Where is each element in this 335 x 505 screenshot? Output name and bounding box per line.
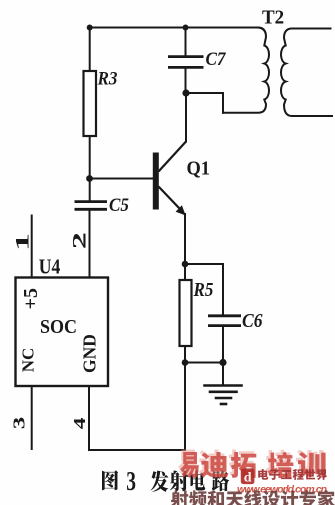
wire U4 pin1 stub xyxy=(31,216,33,278)
node R5 bottom junction xyxy=(182,359,189,366)
wire C7 bottom lead to collector node xyxy=(185,68,187,93)
svg-text:3: 3 xyxy=(126,467,136,497)
node emitter/R5 junction xyxy=(182,261,189,268)
svg-text:C7: C7 xyxy=(206,48,227,69)
wire Q1 emitter vertical down xyxy=(184,214,186,450)
watermark bottom char 线 xyxy=(244,490,261,505)
svg-text:1: 1 xyxy=(12,233,33,251)
wire Q1 collector vertical xyxy=(185,93,187,142)
wire ground lead xyxy=(222,363,224,385)
inductor T2 secondary winding xyxy=(281,29,332,117)
watermark bottom char 家 xyxy=(318,490,335,505)
inductor T2 primary winding xyxy=(223,28,269,113)
svg-text:+5: +5 xyxy=(20,288,42,309)
resistor R5 body xyxy=(180,280,192,346)
wire top rail from R3 top to T2 primary xyxy=(90,27,258,29)
watermark small char 子 xyxy=(269,469,280,479)
wire R5 to C6 top link xyxy=(185,264,223,315)
svg-text:SOC: SOC xyxy=(40,316,77,338)
wire C7 top lead xyxy=(185,28,187,57)
caption char 图 xyxy=(102,470,118,490)
svg-text:NC: NC xyxy=(19,348,38,373)
watermark char 拓 xyxy=(231,452,256,478)
watermark small char 电 xyxy=(258,469,268,480)
svg-text:C5: C5 xyxy=(109,194,129,215)
watermark bottom char 天 xyxy=(226,491,244,505)
wire C5 bottom lead to U4 pin2 xyxy=(89,210,91,278)
watermark char 培 xyxy=(268,452,294,478)
watermark bottom char 和 xyxy=(207,490,224,505)
watermark char 训 xyxy=(298,452,326,478)
capacitor C5 plates xyxy=(75,202,108,210)
watermark small char 程 xyxy=(293,469,304,480)
wire collector node jog to T2 primary bottom xyxy=(186,93,223,113)
node top C7 junction xyxy=(183,25,189,31)
node base/C5 junction xyxy=(86,175,93,182)
watermark char 易 xyxy=(180,452,199,478)
IC U4 body xyxy=(16,278,109,387)
svg-text:T2: T2 xyxy=(262,7,284,29)
watermark bottom char 计 xyxy=(281,490,298,505)
wire R3 top lead xyxy=(89,28,91,72)
ground symbol xyxy=(205,386,242,405)
watermark char 迪 xyxy=(201,452,229,478)
wire C6 bottom lead xyxy=(222,326,224,363)
node top-left junction xyxy=(87,25,93,31)
watermark ghost offset copy xyxy=(178,449,324,475)
watermark bottom char 设 xyxy=(263,491,280,505)
node C6/ground junction xyxy=(219,359,226,366)
svg-text:4: 4 xyxy=(70,417,89,429)
caption char 射 xyxy=(170,471,189,492)
svg-text:C6: C6 xyxy=(242,310,263,332)
svg-text:R5: R5 xyxy=(193,279,214,302)
watermark small char 世 xyxy=(305,469,316,479)
wire bottom return pin4 to emitter branch xyxy=(89,449,185,451)
wire base lead from C5 junction to Q1 base xyxy=(90,178,154,180)
transistor Q1 xyxy=(153,142,186,216)
resistor R3 body xyxy=(84,71,97,136)
caption char 发 xyxy=(151,471,169,492)
watermark small char 工 xyxy=(281,470,292,479)
watermark bottom char 频 xyxy=(189,490,207,505)
svg-text:3: 3 xyxy=(10,417,29,430)
watermark bottom char 专 xyxy=(299,490,316,505)
caption char 路 xyxy=(212,470,229,491)
node collector junction xyxy=(182,89,189,96)
svg-text:R3: R3 xyxy=(97,68,118,89)
svg-text:GND: GND xyxy=(79,334,99,373)
watermark logo square xyxy=(241,469,255,485)
wire R3 bottom lead down to C5 junction xyxy=(89,136,91,201)
watermark bottom char 射 xyxy=(171,490,189,505)
svg-text:Q1: Q1 xyxy=(187,158,211,180)
svg-text:2: 2 xyxy=(69,232,90,249)
watermark small char 界 xyxy=(316,469,327,480)
svg-text:U4: U4 xyxy=(39,256,61,279)
capacitor C6 plates xyxy=(208,316,241,326)
capacitor C7 plates xyxy=(168,57,204,68)
caption char 电 xyxy=(190,470,205,491)
wire U4 pin3 stub xyxy=(31,386,33,449)
wire R5 bottom to C6 bottom link xyxy=(185,362,223,364)
wire U4 pin4 down xyxy=(88,386,90,450)
